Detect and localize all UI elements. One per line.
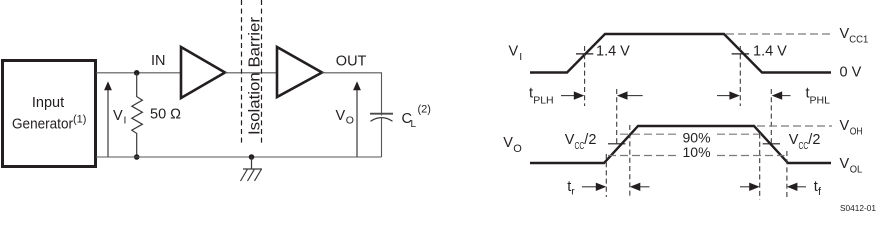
svg-text:(1): (1) — [73, 114, 86, 126]
input generator box — [3, 61, 96, 167]
svg-text:f: f — [818, 186, 822, 198]
node: resistor bottom dot — [134, 154, 140, 160]
svg-text:CC: CC — [799, 141, 809, 152]
svg-text:/2: /2 — [808, 132, 820, 148]
wire: U1 output to U2 input — [225, 72, 277, 74]
tPLH arrows — [561, 95, 575, 97]
resistor 50ohm — [132, 73, 143, 157]
tf arrows — [740, 186, 750, 188]
svg-text:OL: OL — [850, 164, 863, 176]
svg-text:1.4 V: 1.4 V — [596, 43, 630, 59]
waveform VO — [530, 126, 831, 163]
dashed line output rise crossing — [616, 89, 618, 144]
svg-text:V: V — [113, 108, 123, 124]
svg-text:CC: CC — [575, 141, 585, 152]
dashed level line VCC1 — [726, 33, 831, 35]
svg-text:V: V — [840, 156, 850, 172]
svg-text:V: V — [565, 132, 575, 148]
tr dashed bound right — [629, 125, 631, 197]
svg-text:CC1: CC1 — [849, 34, 868, 46]
buffer U2 output side — [277, 47, 322, 97]
tr arrows — [582, 186, 596, 188]
tick 1.4V falling — [732, 53, 749, 55]
svg-text:O: O — [513, 143, 522, 155]
svg-text:50 Ω: 50 Ω — [150, 106, 181, 122]
wire: bottom ground rail — [96, 156, 382, 158]
svg-text:V: V — [840, 26, 850, 42]
tick VCC/2 falling — [763, 143, 780, 145]
svg-text:V: V — [789, 132, 799, 148]
svg-text:PHL: PHL — [810, 94, 831, 106]
svg-text:S0412-01: S0412-01 — [840, 203, 876, 212]
dashed level line VOH — [757, 125, 832, 127]
svg-text:0 V: 0 V — [840, 64, 862, 80]
tick 1.4V rising — [576, 53, 593, 55]
dashed level line 90% — [620, 133, 680, 135]
tf dashed bound right — [786, 151, 788, 200]
wire: CL bottom to ground rail — [381, 118, 383, 158]
svg-text:10%: 10% — [683, 144, 711, 160]
voltage arrow VO — [356, 90, 358, 158]
svg-text:r: r — [571, 186, 575, 198]
svg-text:IN: IN — [151, 53, 166, 69]
voltage arrow VI — [107, 90, 109, 158]
buffer U1 input side — [181, 47, 225, 98]
tf dashed bound left — [759, 134, 761, 200]
svg-text:I: I — [124, 115, 127, 127]
svg-text:(2): (2) — [418, 104, 431, 116]
svg-text:V: V — [509, 44, 519, 60]
dashed line input fall crossing — [739, 46, 741, 106]
dashed level line 10% — [608, 155, 680, 157]
svg-text:V: V — [503, 135, 513, 151]
tPHL arrows — [717, 95, 730, 97]
tick VCC/2 rising — [608, 143, 625, 145]
svg-text:L: L — [411, 119, 417, 130]
svg-text:OH: OH — [850, 126, 863, 138]
svg-text:Input: Input — [32, 95, 64, 111]
capacitor CL — [370, 113, 393, 115]
svg-text:V: V — [840, 118, 850, 134]
wire: U2 output to load — [322, 73, 382, 116]
waveform VI — [530, 34, 831, 73]
svg-text:/2: /2 — [584, 132, 596, 148]
isolation barrier dashed line right — [261, 0, 263, 146]
tr dashed bound left — [605, 154, 607, 197]
svg-text:OUT: OUT — [336, 54, 367, 70]
node: ground junction dot — [249, 154, 255, 160]
wire: generator output to buffer input — [96, 72, 180, 74]
svg-text:V: V — [336, 108, 346, 124]
svg-text:Generator: Generator — [12, 117, 73, 133]
dashed line input rise crossing — [584, 46, 586, 106]
svg-text:Isolation Barrier: Isolation Barrier — [247, 16, 264, 135]
svg-text:O: O — [346, 115, 354, 127]
dashed line output fall crossing — [770, 89, 772, 144]
svg-text:1.4 V: 1.4 V — [753, 43, 787, 59]
ground symbol — [241, 157, 263, 181]
isolation barrier dashed line left — [241, 0, 243, 146]
svg-text:PLH: PLH — [533, 94, 553, 106]
node: IN junction dot — [134, 70, 140, 76]
svg-text:I: I — [519, 51, 522, 63]
